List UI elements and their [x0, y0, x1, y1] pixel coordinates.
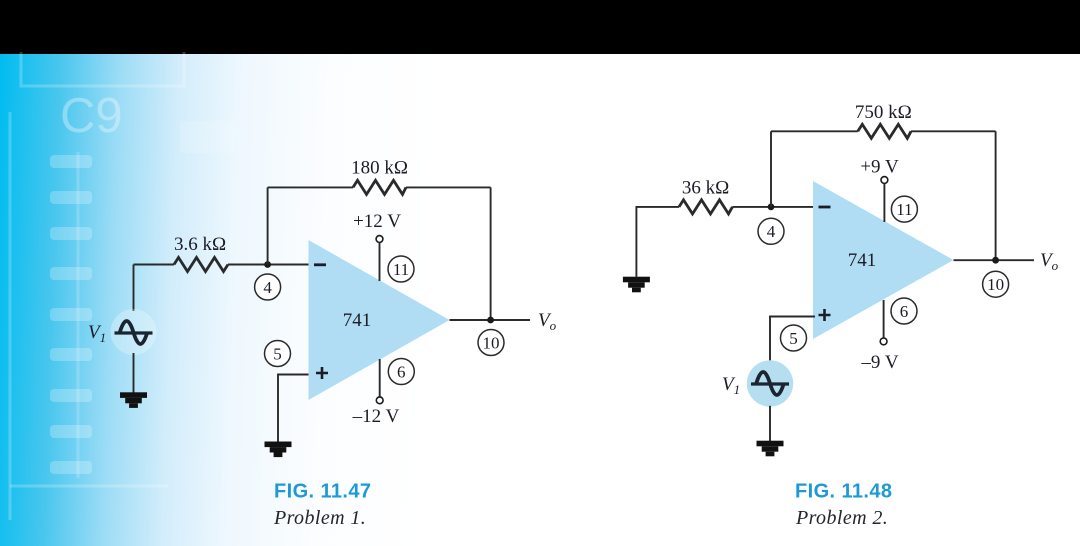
pin 11 circle: [388, 256, 414, 282]
op-amp U1 non-inverting input plus sign: [316, 367, 328, 379]
output junction dot: [992, 257, 999, 264]
wire: +12 V terminal to op-amp pin 11: [379, 243, 381, 282]
op-amp U1 inverting input minus sign: [314, 263, 326, 266]
resistor R3 36 kOhm zigzag: [679, 200, 732, 214]
svg-text:Vo: Vo: [1040, 250, 1059, 273]
svg-text:10: 10: [483, 333, 500, 352]
svg-text:741: 741: [848, 250, 877, 271]
wire: output: [954, 259, 1035, 261]
node junction dot at inverting input: [768, 204, 775, 211]
ground under V1: [757, 441, 784, 457]
svg-text:10: 10: [987, 275, 1004, 294]
wire: op-amp pin 6 to -12 V terminal: [379, 359, 381, 397]
svg-text:11: 11: [896, 200, 912, 219]
pin 4 circle: [758, 218, 784, 244]
svg-text:–9 V: –9 V: [860, 352, 898, 373]
ground at non-inverting input: [265, 442, 292, 458]
svg-text:3.6 kΩ: 3.6 kΩ: [174, 234, 226, 255]
svg-text:–12 V: –12 V: [352, 406, 400, 427]
resistor R4 750 kOhm zigzag: [858, 124, 911, 138]
svg-text:5: 5: [789, 329, 798, 348]
resistor R1 3.6 kOhm zigzag: [174, 258, 228, 272]
svg-text:6: 6: [397, 362, 406, 381]
wire: ground to non-inverting input: [278, 375, 309, 442]
AC source V1 sine symbol: [115, 321, 153, 344]
wire: AC source V1 to ground: [133, 353, 135, 393]
wire: AC source V1 to ground: [769, 406, 771, 442]
pin 5 circle: [781, 325, 807, 351]
resistor R2 180 kOhm zigzag: [353, 180, 406, 194]
wire: left ground leg to resistor R3 and inverting input: [636, 207, 813, 277]
faint chip decoration: [0, 0, 620, 546]
node junction dot at inverting input: [264, 261, 271, 268]
wire: feedback right drop to output: [490, 187, 492, 320]
op-amp U2 non-inverting input plus sign: [819, 309, 831, 321]
wire: feedback top run: [771, 130, 996, 132]
wire: +9 V terminal to op-amp pin 11: [883, 184, 885, 223]
AC source V1 sine symbol: [751, 372, 789, 395]
pin 10 circle: [983, 271, 1009, 297]
wire: feedback left riser: [267, 187, 269, 264]
svg-text:4: 4: [767, 222, 776, 241]
svg-text:V1: V1: [722, 374, 740, 397]
pin 11 circle: [891, 196, 917, 222]
svg-text:+9 V: +9 V: [860, 156, 899, 177]
op-amp U2 (741) body: [813, 181, 954, 339]
svg-text:Vo: Vo: [538, 310, 557, 333]
AC source V1 halo: [111, 309, 157, 355]
svg-text:36 kΩ: 36 kΩ: [682, 178, 729, 199]
pin 6 circle: [388, 359, 414, 385]
wire: feedback top run: [268, 186, 491, 188]
wire: AC source V1 to non-inverting input: [770, 317, 815, 362]
wire: feedback left riser: [770, 131, 772, 207]
wire: op-amp pin 6 to -9 V terminal: [883, 300, 885, 338]
pin 6 circle: [891, 298, 917, 324]
svg-text:V1: V1: [88, 322, 106, 345]
-12 V supply terminal: [376, 397, 383, 404]
wire: feedback right drop to output: [995, 131, 997, 260]
+12 V supply terminal: [376, 236, 383, 243]
svg-text:11: 11: [393, 260, 409, 279]
AC source V1 (filled circle): [747, 360, 793, 406]
ground under V1: [120, 392, 147, 408]
-9 V supply terminal: [880, 338, 887, 345]
svg-text:Problem 2.: Problem 2.: [795, 507, 888, 529]
output junction dot: [487, 317, 494, 324]
svg-text:741: 741: [343, 310, 372, 331]
svg-text:+12 V: +12 V: [353, 211, 401, 232]
svg-text:6: 6: [900, 302, 909, 321]
svg-text:5: 5: [273, 344, 282, 363]
+9 V supply terminal: [881, 177, 888, 184]
pin 4 circle: [255, 274, 281, 300]
pin 10 circle: [478, 330, 504, 356]
svg-text:Problem 1.: Problem 1.: [273, 507, 366, 529]
svg-text:180 kΩ: 180 kΩ: [351, 158, 408, 179]
svg-text:4: 4: [263, 278, 272, 297]
ground at left of R3: [623, 277, 650, 293]
op-amp U2 inverting input minus sign: [819, 206, 831, 209]
wire: output: [450, 319, 531, 321]
op-amp U1 (741) body: [309, 240, 450, 400]
wire: input drop to AC source V1: [133, 265, 135, 312]
svg-text:750 kΩ: 750 kΩ: [855, 102, 912, 123]
wire: V1 to resistor R1 and on to inverting input: [134, 264, 309, 266]
svg-text:FIG. 11.48: FIG. 11.48: [795, 481, 892, 503]
svg-text:FIG. 11.47: FIG. 11.47: [274, 481, 371, 503]
pin 5 circle: [265, 341, 291, 367]
top black banner: [0, 0, 1080, 54]
